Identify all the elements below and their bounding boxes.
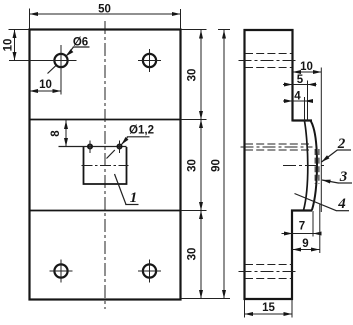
- extension of divider lower to chain dim: [181, 210, 207, 212]
- svg-text:30: 30: [187, 159, 199, 172]
- extension top edge to 90 dim: [218, 29, 230, 31]
- rivet hole right Ø1,2: [117, 144, 121, 148]
- hidden contact right dashed line: [318, 149, 320, 184]
- svg-text:5: 5: [297, 74, 304, 86]
- dimension 50 arrow left: [30, 12, 39, 16]
- dimension 50 arrow right: [172, 12, 181, 16]
- svg-text:15: 15: [262, 302, 275, 314]
- side view step at bottom of contact: [291, 209, 312, 211]
- svg-text:3: 3: [339, 169, 348, 185]
- rivet hole left vertical tick: [89, 141, 91, 154]
- dimension 10 (side) arrow right: [313, 70, 322, 74]
- front view divider line lower: [29, 210, 182, 212]
- svg-text:90: 90: [211, 159, 223, 172]
- svg-text:7: 7: [299, 221, 305, 233]
- dimension 10 (side) extension line: [320, 68, 322, 213]
- hidden line top hole upper: [245, 53, 292, 55]
- dimension 4 line: [283, 100, 313, 102]
- side view left edge: [243, 29, 245, 300]
- part label 4 shelf: [336, 210, 349, 212]
- dimension 15 line: [245, 313, 293, 315]
- hidden line rivet upper: [245, 143, 311, 145]
- dimension 9 extension line: [319, 204, 321, 253]
- front view plate outline: [30, 30, 181, 300]
- svg-text:9: 9: [302, 238, 308, 250]
- dimension 7 arrow at face: [284, 232, 293, 236]
- dimension 10 (below hole) line: [30, 90, 62, 92]
- hole bottom-left vertical center line: [60, 260, 62, 283]
- contact plate rectangle (part 1): [84, 147, 127, 184]
- dimension 5 arrow at extension: [308, 83, 317, 87]
- extension bottom edge to vertical dims: [181, 298, 230, 300]
- dimension 10 (side) line: [293, 71, 322, 73]
- hole top-right Ø6: [143, 54, 156, 67]
- dimension 4 arrow at extension: [305, 99, 314, 103]
- side view step at top of contact: [293, 119, 313, 121]
- dimension 9 line: [293, 249, 320, 251]
- dimension 90 arrow bottom: [222, 290, 226, 299]
- part label 2 shelf: [337, 149, 351, 151]
- dimension 5 arrow at face: [284, 83, 293, 87]
- contact plate horizontal center line: [82, 165, 129, 167]
- contact plate top line through rivet holes: [59, 146, 127, 148]
- front view vertical center line: [104, 21, 106, 309]
- Ø6 leader arrowhead: [64, 49, 73, 58]
- Ø6 leader shelf: [73, 46, 90, 48]
- hidden line rivet lower: [245, 149, 311, 151]
- hole bottom-right horizontal center line: [138, 270, 161, 272]
- dimension 5 extension line: [307, 81, 309, 122]
- hole bottom-right Ø6: [143, 264, 156, 277]
- svg-text:10: 10: [3, 39, 15, 52]
- dimension 15 arrow right: [284, 312, 293, 316]
- hidden line top hole lower: [245, 67, 292, 69]
- hidden line bottom hole lower: [245, 278, 292, 280]
- Ø6 leader lower segment: [48, 66, 57, 74]
- hole bottom-right vertical center line: [149, 260, 151, 283]
- svg-text:Ø1,2: Ø1,2: [129, 125, 154, 137]
- contact spring inner curve: [304, 121, 308, 210]
- dimension 90 arrow top: [222, 30, 226, 39]
- chain 30 arrow top up: [199, 30, 203, 39]
- center line bottom hole: [239, 271, 299, 273]
- rivet hole left Ø1,2: [88, 144, 92, 148]
- dimension 15 arrow left: [245, 312, 254, 316]
- svg-text:4: 4: [294, 91, 301, 103]
- dimension 90 line: [223, 30, 225, 299]
- chain 30 arrows at second divider: [199, 202, 203, 211]
- dimension 5 line: [283, 84, 317, 86]
- part label 4 leader: [295, 194, 337, 211]
- part label 3 shelf: [338, 182, 352, 184]
- hole top-right horizontal center line: [138, 60, 161, 62]
- dimension 15 extension right: [291, 300, 293, 318]
- dimension 9 arrow right: [311, 248, 320, 252]
- part label 3 leader: [322, 180, 338, 183]
- rivet hole right vertical tick: [119, 141, 121, 154]
- Ø1,2 leader upper segment: [121, 137, 127, 145]
- hole bottom-left Ø6: [54, 264, 67, 277]
- Ø1,2 leader lower segment: [107, 150, 115, 159]
- dimension 10 (top-left) arrow bottom: [13, 52, 17, 61]
- Ø1,2 leader arrowhead: [120, 137, 129, 146]
- side view right face upper: [291, 29, 293, 122]
- part label 3 arrowhead: [322, 178, 331, 183]
- hidden contact left dashed line: [314, 149, 316, 184]
- part label 2 leader: [322, 150, 338, 162]
- dimension 10 (below hole) arrow right: [53, 89, 62, 93]
- chain 30 arrow bottom down: [199, 290, 203, 299]
- hole top-left Ø6: [54, 54, 67, 67]
- contact spring outer curve: [311, 121, 317, 211]
- dimension 10 (below hole) arrow left: [30, 89, 39, 93]
- hole top-right vertical center line: [149, 49, 151, 72]
- part label 1 leader: [115, 174, 127, 205]
- center line top hole: [239, 60, 299, 62]
- dimension 10 (top-left) arrow top: [13, 30, 17, 39]
- dimension 15 extension left: [244, 300, 246, 318]
- dimension 9 arrow left: [293, 248, 302, 252]
- Ø1,2 leader shelf: [127, 136, 150, 138]
- hole top-left vertical center line: [60, 45, 62, 95]
- extension top edge to vertical dims: [181, 29, 207, 31]
- svg-text:10: 10: [39, 79, 52, 91]
- dimension 8 line: [65, 120, 67, 147]
- dimension 50 line: [30, 13, 181, 15]
- extension of divider upper to chain dim: [181, 119, 207, 121]
- dimension 4 arrow at face: [284, 99, 293, 103]
- dimension 8 arrow top: [64, 121, 68, 130]
- svg-text:8: 8: [50, 130, 62, 137]
- svg-text:2: 2: [337, 136, 346, 152]
- side view top edge: [244, 29, 294, 31]
- dimension 50 extension line left: [29, 9, 31, 30]
- svg-text:50: 50: [98, 4, 111, 16]
- svg-text:Ø6: Ø6: [73, 37, 88, 49]
- side view bottom edge: [244, 298, 294, 300]
- svg-text:1: 1: [130, 190, 138, 206]
- dimension 50 extension line right: [180, 9, 182, 30]
- dimension 7 arrow at extension: [313, 232, 322, 236]
- dimension 8 arrow bottom: [64, 138, 68, 147]
- front view divider line upper: [29, 119, 182, 121]
- part label 2 arrowhead: [320, 155, 329, 163]
- part label 1 shelf: [125, 204, 138, 206]
- hole top-left horizontal center line: [9, 60, 77, 62]
- svg-text:30: 30: [187, 248, 199, 261]
- dimension 10 (top-left) extension top: [9, 29, 30, 31]
- dimension 10 (top-left) line: [14, 30, 16, 61]
- svg-text:10: 10: [300, 61, 313, 73]
- chain 30 arrows at first divider: [199, 111, 203, 120]
- dimension 7 extension line: [312, 211, 314, 237]
- Ø6 leader upper segment: [66, 47, 73, 56]
- svg-text:30: 30: [187, 69, 199, 82]
- dimension 7 line: [282, 233, 320, 235]
- dimension chain 30 line: [200, 30, 202, 299]
- svg-text:4: 4: [337, 196, 346, 212]
- center line rivet: [241, 146, 313, 148]
- dimension 4 extension line: [304, 97, 306, 121]
- hole bottom-left horizontal center line: [50, 270, 73, 272]
- hidden line bottom hole upper: [245, 264, 292, 266]
- contact center line: [283, 165, 327, 167]
- dimension 10 (side) arrow left: [293, 70, 302, 74]
- side view right face lower: [291, 210, 293, 301]
